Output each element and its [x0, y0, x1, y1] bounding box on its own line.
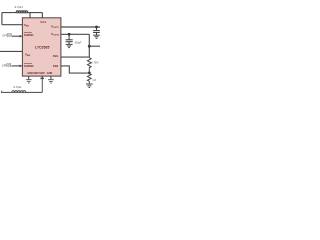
node junction dot on VOUT1	[95, 26, 98, 29]
wire : FB2 pin path	[61, 66, 89, 73]
wire : bottom wire with stub	[2, 91, 43, 93]
wire : SW2 bottom drop	[41, 76, 43, 79]
IC U1 LTC3535 body	[22, 18, 61, 76]
wire : VOUT2 pin wire	[61, 33, 89, 35]
capacitor C2 10uF	[66, 34, 73, 44]
node junction dot VOUT2/C2	[68, 33, 71, 36]
wire : VIN2 pin wire	[0, 50, 22, 52]
wire : chain between resistors	[88, 68, 90, 73]
wire : SW1B top drop	[41, 13, 43, 18]
wire : SW1A top stub	[29, 13, 31, 18]
ground for C1	[93, 35, 100, 38]
svg-text:GND: GND	[47, 72, 53, 75]
svg-text:LTC3535: LTC3535	[35, 46, 49, 50]
svg-text:SW1: SW1	[40, 20, 47, 24]
svg-text:ON: ON	[7, 64, 11, 67]
ground GND pin left	[26, 76, 32, 83]
svg-text:1M: 1M	[92, 78, 96, 82]
svg-text:FB2: FB2	[53, 64, 59, 68]
ground for divider chain	[86, 84, 93, 88]
wire : VIN1 pin wire	[2, 24, 23, 26]
node junction dot chain/branch	[88, 45, 91, 48]
svg-text:4.7µH: 4.7µH	[13, 85, 21, 89]
svg-text:4.7µH: 4.7µH	[14, 5, 22, 9]
svg-text:SHDN2: SHDN2	[24, 64, 34, 68]
wire : top wire VIN to SW pins	[2, 12, 43, 14]
ground GND pin right	[48, 76, 54, 83]
svg-text:1.78M: 1.78M	[91, 60, 98, 64]
svg-text:10µF: 10µF	[75, 40, 82, 44]
svg-text:SW2: SW2	[39, 72, 45, 75]
wire : SHDN2 wire with arrow	[12, 65, 21, 67]
inductor L1 4.7uH	[16, 11, 27, 13]
node junction bar on SW2 drop	[40, 78, 44, 79]
svg-text:SHDN1: SHDN1	[24, 33, 34, 37]
ground for C2	[66, 44, 73, 47]
svg-text:FB1: FB1	[53, 54, 59, 58]
wire : SHDN1 wire with arrow	[12, 35, 21, 37]
overline for SHDN2	[24, 63, 32, 65]
wire : left input rail	[1, 13, 3, 25]
svg-text:GND: GND	[27, 72, 33, 75]
svg-text:ON: ON	[8, 34, 12, 37]
wire : VOUT1 pin wire to right edge	[61, 26, 100, 28]
resistor R2 1M	[87, 74, 91, 84]
node junction dot FB2 tap	[88, 72, 91, 75]
resistor R1 1.78M	[87, 58, 91, 69]
capacitor C1	[93, 27, 100, 35]
overline for SHDN1	[24, 31, 32, 33]
inductor L2 4.7uH	[12, 91, 26, 93]
wire : FB1 pin wire	[61, 56, 89, 58]
wire : feedback chain vertical from VOUT2 corner	[88, 34, 90, 57]
wire : branch to right edge	[89, 45, 100, 47]
